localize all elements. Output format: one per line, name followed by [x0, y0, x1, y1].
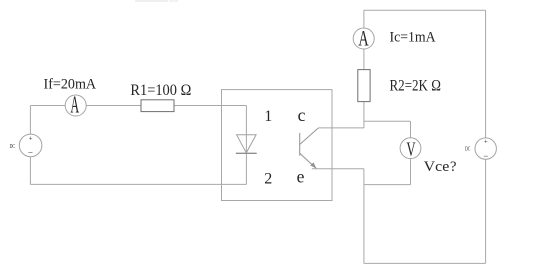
svg-text:−: −: [28, 147, 33, 157]
svg-text:+: +: [29, 134, 33, 142]
svg-text:V: V: [406, 139, 416, 161]
svg-text:1: 1: [264, 108, 272, 125]
svg-text:c: c: [298, 105, 306, 125]
svg-text:A: A: [358, 25, 368, 50]
svg-text:If=20mA: If=20mA: [44, 76, 97, 92]
svg-text:?: ?: [450, 159, 456, 175]
svg-text:A: A: [70, 92, 79, 118]
svg-text:DC: DC: [465, 147, 470, 153]
svg-text:+: +: [484, 138, 488, 146]
svg-text:DC: DC: [10, 144, 15, 150]
svg-text:Vce: Vce: [424, 159, 450, 175]
svg-text:R1=100 Ω: R1=100 Ω: [130, 82, 191, 99]
svg-text:e: e: [297, 167, 305, 187]
svg-text:Ic=1mA: Ic=1mA: [390, 30, 436, 46]
svg-text:−: −: [483, 151, 488, 161]
svg-text:2: 2: [264, 170, 272, 187]
svg-text:R2=2K Ω: R2=2K Ω: [390, 77, 441, 94]
